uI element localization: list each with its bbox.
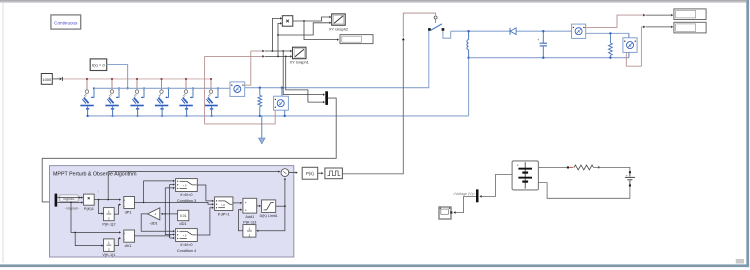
wire battery return loop (538, 183, 630, 199)
capacitor C1 (537, 31, 547, 58)
solar cell D6 (204, 78, 219, 117)
wire feedback to Add1 (238, 209, 243, 231)
wire V to V(K-1)1 (75, 232, 103, 246)
svg-text:<signal>: <signal> (65, 207, 78, 211)
switch Condition 3 (176, 179, 198, 203)
unit delay feedback 1/z (243, 225, 256, 238)
solar cell D4 (155, 78, 170, 117)
solar cell D5 (179, 78, 194, 117)
svg-text:XY Graph2: XY Graph2 (329, 26, 348, 31)
left canvas edge line (2, 3, 4, 263)
scope block (439, 207, 452, 219)
current measurement block A2 (572, 24, 586, 38)
gain -dD1 (148, 208, 160, 226)
wire P(K-1)2 out to dP1 (114, 203, 121, 214)
solar cell D3 (130, 78, 145, 117)
wire V1 signal out (red loop) (205, 56, 276, 124)
block P(s) (302, 167, 318, 179)
wire solver to PV bus (107, 65, 129, 90)
dV1 sum block (123, 230, 134, 248)
resize grip bottom-right (736, 259, 744, 264)
wire I signal to junction (251, 50, 265, 53)
P(K-1)2 unit delay (102, 208, 115, 227)
wire A1 electrical out rail to switch (245, 31, 429, 89)
wire P(K)1 out to dP1 (94, 198, 121, 200)
wire gain out to Condition4 (141, 214, 175, 232)
wire V signal to junction (205, 55, 265, 58)
svg-text:V(K-1)1: V(K-1)1 (102, 253, 115, 257)
wire battery + to resistor (538, 166, 573, 168)
wire P(K) to output circle (long) (108, 170, 280, 199)
Display2 (voltage) (674, 22, 706, 33)
svg-text:dD1: dD1 (179, 221, 186, 226)
svg-text:P(K)1: P(K)1 (84, 206, 94, 211)
MPPT subsystem area box (50, 166, 294, 257)
saturation D(K) Limit1 (260, 200, 278, 218)
wire mux out2 to P(K)1 (57, 201, 83, 203)
wire V2 signal (red) to Display2 (626, 26, 673, 67)
solver block f(x)=0 (90, 59, 107, 71)
svg-text:if dV>0: if dV>0 (181, 193, 193, 197)
wire PWM output to switch gate (342, 38, 404, 174)
wire I black segment to XY Graph1 (265, 50, 292, 52)
svg-text:1: 1 (108, 241, 110, 245)
wire if dP out to Add1 (233, 202, 242, 204)
irradiance rail (pink) (63, 78, 211, 80)
svg-text:+: + (123, 198, 125, 202)
wire dP branch to Condition 3 (144, 180, 175, 203)
Display1 (current) (674, 9, 706, 20)
svg-text:?: ? (97, 189, 100, 194)
svg-text:-dD1: -dD1 (149, 221, 157, 226)
svg-text:P(s): P(s) (306, 171, 314, 176)
wire A2 signal (red) to Display1 (585, 14, 674, 28)
resistor R1 (parallel) (258, 88, 262, 117)
wire bus selector to scope (453, 196, 476, 213)
svg-text:> 0: > 0 (221, 203, 225, 207)
wire saturation out node (276, 205, 286, 207)
wire gate (red) (403, 13, 437, 37)
solar cell D1 (80, 78, 95, 117)
diode D7 (510, 28, 516, 35)
wire product out to XY Graph2 (293, 16, 332, 22)
svg-text:> 0: > 0 (183, 184, 187, 188)
svg-text:Condition 3: Condition 3 (177, 199, 196, 203)
svg-text:+: + (537, 38, 539, 42)
svg-text:if dP>1: if dP>1 (218, 212, 230, 216)
wire A2 out rail (586, 32, 629, 38)
MPPT input mux bar (55, 194, 58, 207)
svg-text:+: + (626, 173, 628, 177)
powergui Continuous block (51, 15, 81, 29)
PWM generator block (325, 168, 343, 179)
svg-text:MPPT Perturb & Observe Algorit: MPPT Perturb & Observe Algorithm (53, 171, 137, 177)
PV negative rail (bottom, return to converter) (89, 115, 469, 117)
wire mux out1 to P(K)1 (57, 196, 83, 198)
PV positive rail (top) (94, 87, 230, 89)
wire node up to circle (284, 178, 286, 206)
XY Graph2 block (329, 14, 348, 31)
svg-text:+: + (245, 208, 247, 212)
solar cell D2 (105, 78, 120, 117)
signal tag (60, 195, 78, 202)
wire battery m out (480, 174, 512, 196)
svg-text:dP1: dP1 (125, 209, 132, 214)
switch if dP>1 (215, 197, 233, 216)
svg-text:dV1: dV1 (125, 243, 132, 248)
wire A1 signal out (red) (243, 51, 251, 85)
wire P(s) to PWM (318, 172, 324, 174)
output circle block (281, 169, 289, 177)
arrow into bus selector (479, 195, 481, 198)
svg-text:P(K-1)2: P(K-1)2 (102, 223, 115, 227)
P(K)1 product block (84, 194, 95, 211)
current measurement block A1 (230, 82, 245, 97)
series cell element (625, 171, 635, 186)
boost top rail (451, 30, 572, 32)
sum Add1 (243, 198, 257, 224)
product block (P=V*I) (282, 16, 293, 27)
svg-text:<Voltage (V)>: <Voltage (V)> (453, 192, 475, 196)
svg-text:f(x) = 0: f(x) = 0 (92, 63, 105, 68)
svg-text:1: 1 (108, 210, 110, 214)
svg-text:1000: 1000 (42, 77, 52, 82)
load resistor R2 (609, 33, 613, 57)
resistor R3 (horizontal) (574, 165, 600, 170)
svg-text:XY Graph1: XY Graph1 (290, 60, 309, 65)
XY Graph1 block (290, 47, 309, 64)
mux (V,I to MPPT) (325, 91, 328, 105)
ideal switch S1 (428, 19, 444, 31)
wire dD1 branch to Condition4 (165, 214, 175, 236)
wire constant output (52, 77, 62, 81)
bottom window border (0, 264, 749, 267)
wire circle out to P(s) (289, 171, 298, 173)
bus selector bar (476, 189, 479, 202)
right window border (746, 0, 749, 267)
wire dD1 to gain (161, 213, 178, 215)
wire I up to product (272, 17, 282, 51)
wire V branch to XY Graph2 (278, 22, 331, 35)
svg-text:Continuous: Continuous (54, 20, 78, 25)
wire dD1 branch to Condition3 (165, 187, 175, 214)
voltage measurement block V1 (274, 88, 289, 117)
V(K-1)1 unit delay (102, 239, 115, 257)
dP1 sum block (123, 197, 134, 215)
svg-text:+: + (517, 163, 519, 167)
switch Condition 4 (176, 229, 198, 253)
inductor L1 (467, 31, 469, 58)
svg-text:0.01: 0.01 (180, 214, 187, 218)
constant block 1000 (irradiance) (41, 74, 52, 85)
wire mux V down to dV1 (71, 202, 121, 233)
voltage measurement block V2 (623, 38, 637, 58)
svg-text:+: + (123, 232, 125, 236)
svg-text:if dV>0: if dV>0 (181, 243, 193, 247)
wire Condition4 out (197, 207, 214, 235)
wire I down to mux (283, 51, 325, 96)
wire V(K-1)1 out to dV1 (114, 237, 121, 246)
svg-text:P(K-1)3: P(K-1)3 (243, 221, 256, 225)
wire V black segment to XY Graph1 (265, 55, 292, 57)
wire switch right to boost rail (443, 31, 451, 38)
ground symbol (259, 116, 265, 144)
battery block (512, 161, 538, 190)
svg-text:+: + (245, 201, 247, 205)
top toolbar strip (0, 0, 746, 3)
wire dP1 out to if dP (135, 202, 214, 206)
wire dV1 out vertical to conditions (135, 183, 175, 239)
svg-text:1: 1 (249, 227, 251, 231)
wire resistor to cell (594, 167, 630, 171)
wire product to Display (304, 21, 339, 41)
display block (power) (340, 35, 373, 44)
wire to P(K-1)2 delay (99, 200, 104, 215)
svg-text:D(K) Limit1: D(K) Limit1 (260, 214, 278, 218)
constant dD1 (0.01) (178, 210, 189, 226)
wire node down to delay feedback (256, 206, 285, 232)
wire boost return down-left (467, 57, 469, 116)
wire mux out to MPPT input (42, 98, 336, 203)
wire Add1 out to saturation (257, 205, 261, 207)
wire V up to product (277, 22, 282, 56)
wire Condition3 out (197, 185, 214, 202)
svg-text:> 0: > 0 (183, 234, 187, 238)
wire V down to mux (286, 56, 325, 103)
boost bottom rail (469, 57, 629, 59)
svg-text:Condition 4: Condition 4 (177, 249, 196, 253)
svg-text:Add1: Add1 (245, 215, 254, 219)
